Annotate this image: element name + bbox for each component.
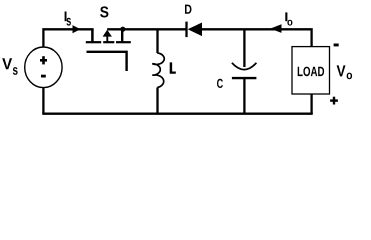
wire switch to diode <box>107 28 185 30</box>
label S <box>100 6 108 17</box>
label Vo <box>337 65 346 76</box>
label Io <box>285 12 287 21</box>
inductor L <box>152 29 164 115</box>
diode D <box>187 22 203 37</box>
label plus output <box>330 97 338 105</box>
current arrow Io <box>270 24 281 33</box>
wire bottom rail <box>42 112 312 114</box>
capacitor C <box>232 29 257 115</box>
transistor S (MOSFET switch) <box>86 29 131 71</box>
drain lead <box>91 29 94 41</box>
minus inside source <box>41 75 46 78</box>
load box <box>292 47 330 94</box>
label LOAD <box>298 67 324 77</box>
current arrow Is <box>73 25 81 33</box>
label minus output <box>334 44 339 47</box>
plus inside source <box>40 59 47 62</box>
label Vs <box>2 58 12 69</box>
wire load bottom <box>310 94 312 114</box>
label D <box>185 5 192 14</box>
voltage source Vs <box>25 47 62 88</box>
wire diode to load corner <box>202 29 312 46</box>
junction node dot <box>120 27 125 32</box>
wire top-left from source to switch <box>43 29 93 47</box>
label Is <box>65 12 67 22</box>
wire source bottom <box>42 88 44 114</box>
label L <box>170 62 176 73</box>
label C <box>217 79 223 88</box>
